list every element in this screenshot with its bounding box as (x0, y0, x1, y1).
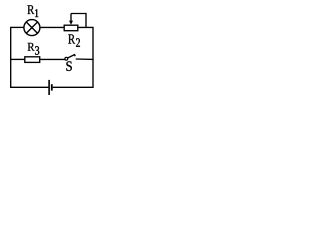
wire middle right (switch to frame) (76, 58, 94, 60)
resistor R3 body (25, 57, 40, 63)
wire left frame vertical (10, 27, 12, 87)
wire middle (R3 to switch) (40, 58, 65, 60)
rheostat R2 slider arrow (69, 14, 73, 25)
label R3 (28, 43, 40, 55)
wire top right (rheostat to frame) (78, 26, 94, 28)
label R1 (27, 5, 38, 17)
rheostat R2 body (64, 25, 78, 31)
lamp R1 (24, 20, 40, 36)
label R2 (68, 34, 80, 46)
wire right frame vertical (92, 27, 94, 87)
wire middle left (frame to R3) (10, 58, 25, 60)
battery (49, 80, 53, 95)
wire bottom right (battery to frame) (53, 86, 94, 88)
wire bottom left (frame to battery) (10, 86, 48, 88)
label S (66, 61, 71, 71)
wire rheostat slider loop (71, 14, 86, 28)
wire top left (frame to lamp) (10, 26, 24, 28)
switch S (65, 54, 75, 60)
wire top middle (lamp to rheostat) (40, 26, 64, 28)
